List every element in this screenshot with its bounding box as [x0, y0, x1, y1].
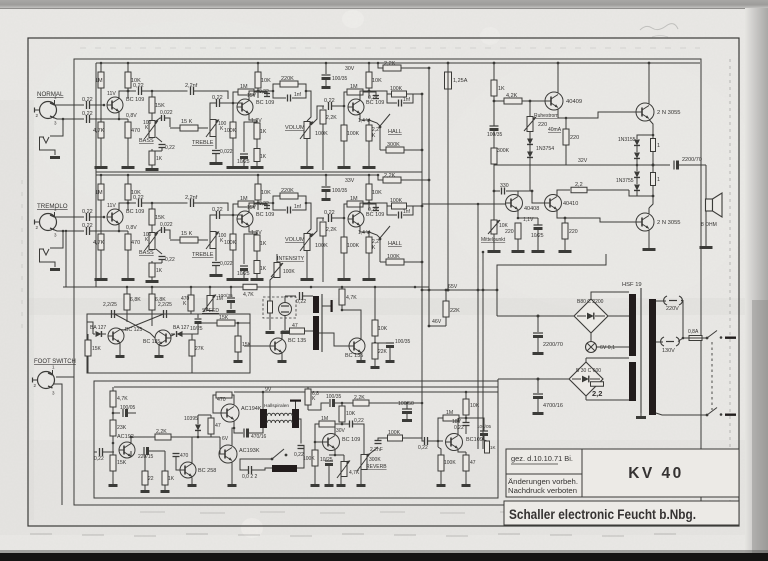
- svg-text:TREMOLO: TREMOLO: [37, 203, 68, 210]
- svg-text:BC 135: BC 135: [143, 339, 160, 345]
- svg-text:15V: 15V: [247, 93, 257, 99]
- wire bridge2 AC top: [585, 358, 587, 362]
- wire T1 collector node ch2: [119, 203, 136, 211]
- svg-text:220: 220: [505, 229, 514, 235]
- wire 40410 collector: [557, 190, 570, 196]
- svg-text:BASS: BASS: [139, 250, 154, 256]
- svg-text:32V: 32V: [578, 158, 588, 164]
- svg-text:220/15: 220/15: [138, 454, 154, 460]
- resistor 4,7K ch1 emitter: [100, 105, 102, 122]
- svg-text:1K: 1K: [168, 476, 175, 482]
- resistor 4,7K mid bus: [243, 284, 257, 290]
- wire BC135-2 collector: [342, 310, 361, 340]
- svg-text:2,2nf: 2,2nf: [185, 195, 198, 201]
- svg-text:0,22: 0,22: [418, 445, 428, 451]
- svg-text:470/16: 470/16: [251, 434, 267, 440]
- wire 40410 base wire: [532, 191, 544, 203]
- svg-text:AC193K: AC193K: [239, 448, 260, 454]
- capacitor 100/05 reverb: [112, 412, 115, 415]
- transistor T1 BC109 ch1: [107, 97, 123, 113]
- svg-text:HALL: HALL: [388, 241, 402, 247]
- capacitor 2,2nF reverb out: [375, 440, 382, 442]
- svg-text:4,2K: 4,2K: [506, 93, 518, 99]
- svg-text:220: 220: [570, 135, 579, 141]
- resistor 220K ch1: [273, 84, 280, 91]
- resistor 1M recovery fb: [341, 423, 344, 426]
- capacitor 470 reverb: [173, 453, 180, 455]
- wire primary top to 220V terminal: [656, 300, 666, 302]
- title block box changes: [506, 474, 582, 497]
- wire 40410 out to lower 2N3055 base region: [564, 217, 566, 219]
- wire BC135-2 emitter: [360, 353, 362, 361]
- transistor BC258: [180, 462, 196, 478]
- capacitor 100/35 rail ch1: [325, 63, 327, 74]
- svg-text:1N3155: 1N3155: [618, 137, 636, 143]
- svg-text:4700/16: 4700/16: [543, 403, 563, 409]
- transformer secondary bar lower: [629, 362, 636, 401]
- svg-text:REVERB: REVERB: [366, 464, 387, 470]
- wire jack to coupling caps: [55, 100, 85, 105]
- LDR in opto: [279, 303, 292, 316]
- resistor 1K mixer out: [485, 441, 490, 453]
- mains switch dashed link: [711, 342, 713, 410]
- wire osc cross coupling: [115, 314, 156, 338]
- wire main supply rail top: [378, 62, 700, 64]
- svg-text:100/05: 100/05: [120, 405, 136, 411]
- resistor 1K bass ch2: [151, 261, 153, 263]
- wire jack sleeve ground ch2: [65, 231, 67, 287]
- wire 40408 base input: [422, 203, 506, 205]
- resistor 6,8K osc left: [126, 287, 128, 294]
- resistor 10K ch2 stage2: [257, 175, 259, 184]
- svg-text:NORMAL: NORMAL: [37, 91, 64, 98]
- svg-text:1nf: 1nf: [403, 209, 411, 215]
- svg-text:1M: 1M: [350, 196, 358, 202]
- svg-text:2 N 3055: 2 N 3055: [657, 110, 681, 116]
- svg-text:0,022: 0,022: [220, 261, 233, 267]
- wire 220V to selector: [681, 301, 689, 339]
- capacitor 100/35 power input: [493, 100, 495, 102]
- capacitor 0,22 stage3 fb ch1: [363, 92, 376, 94]
- svg-text:6,8K: 6,8K: [130, 297, 141, 303]
- resistor 2,2K top ch2: [378, 175, 383, 180]
- resistor 10K ch2 stage3: [368, 175, 370, 184]
- svg-text:gez. d.10.10.71 Bi.: gez. d.10.10.71 Bi.: [511, 456, 573, 463]
- switch HALL ch1: [369, 120, 380, 126]
- output node 32V: [652, 164, 655, 167]
- svg-text:11V: 11V: [107, 203, 116, 209]
- svg-text:4,7K: 4,7K: [93, 240, 105, 246]
- svg-text:TREBLE: TREBLE: [192, 252, 214, 258]
- svg-text:4,7K: 4,7K: [349, 470, 360, 476]
- wire 40409 collector to rail: [557, 63, 559, 94]
- svg-text:10K: 10K: [372, 78, 382, 84]
- transistor AC194K: [221, 404, 239, 422]
- resistor 22K mid right: [374, 342, 377, 345]
- wire 2N3055 upper collector: [648, 63, 650, 105]
- svg-text:1,25A: 1,25A: [453, 78, 468, 84]
- terminal 130V: [656, 341, 663, 343]
- resistor 1K ch1 stage2 emitter: [256, 120, 258, 123]
- wire osc out to 15K: [198, 323, 217, 324]
- transistor 40409: [545, 92, 563, 110]
- reverb driver transformer secondary bar: [313, 316, 319, 350]
- resistor 100K hall ch2: [380, 261, 386, 263]
- potentiometer SPEED 1M: [207, 296, 213, 311]
- wire speaker return: [705, 211, 707, 246]
- capacitor 470/16: [234, 428, 243, 433]
- svg-text:65V: 65V: [448, 284, 458, 290]
- switch reverb mute: [271, 458, 274, 461]
- wire rectifier1 DC output: [497, 315, 574, 317]
- svg-text:1M: 1M: [321, 416, 328, 422]
- resistor 300K hall ch1: [380, 149, 386, 151]
- transistor T3 BC109 ch2: [348, 211, 364, 227]
- svg-text:FOOT SWITCH: FOOT SWITCH: [34, 359, 76, 365]
- transistor BC135 reverb driver 2: [349, 338, 365, 354]
- svg-text:100K: 100K: [224, 128, 237, 134]
- transformer primary bar: [649, 299, 656, 415]
- title block box KV40: [582, 449, 739, 497]
- resistor 15 K treble series ch2: [180, 237, 198, 243]
- svg-text:2,2K: 2,2K: [384, 61, 396, 67]
- svg-text:100K: 100K: [388, 430, 401, 436]
- svg-text:11V: 11V: [107, 91, 116, 97]
- svg-text:300K: 300K: [497, 148, 510, 154]
- resistor 2,2K ch1 stage3 emitter: [368, 120, 370, 125]
- ground T1 emitter resistors: [95, 166, 108, 169]
- svg-text:23K: 23K: [117, 425, 127, 431]
- resistor 100K ch2 stage2 emitter bias: [232, 215, 234, 234]
- svg-text:4,7K: 4,7K: [346, 295, 357, 301]
- wire 40409 emitter to 2N3055 base: [566, 112, 636, 118]
- resistor 10K mixer: [465, 392, 467, 399]
- svg-text:2,2/25: 2,2/25: [103, 302, 117, 308]
- wire 9V rail reverb: [198, 414, 211, 416]
- svg-text:INTENSITY: INTENSITY: [277, 256, 305, 262]
- transistor T2 BC109 ch1: [237, 99, 253, 115]
- resistor 1 lower: [652, 165, 654, 172]
- wire 40409 to 2N3055 base: [557, 93, 559, 95]
- svg-text:0,22: 0,22: [324, 210, 335, 216]
- svg-text:46V: 46V: [432, 319, 442, 325]
- svg-text:0,22: 0,22: [165, 257, 175, 263]
- wire bridge2 left output: [538, 378, 569, 380]
- svg-text:TREBLE: TREBLE: [192, 140, 214, 146]
- wire mid supply bus: [126, 286, 129, 289]
- wire bridge2 to reverb rail: [498, 378, 538, 380]
- svg-text:100K: 100K: [387, 254, 400, 260]
- svg-text:2,2K: 2,2K: [156, 429, 167, 435]
- svg-text:220: 220: [538, 122, 547, 128]
- wire 40408 emitter to 40410 base: [517, 210, 519, 219]
- wire 2N3055 lower emitter to ground rail: [648, 230, 650, 249]
- wire jack to coupling caps: [55, 212, 85, 217]
- capacitor 10/25 recovery emitter: [329, 454, 335, 456]
- svg-text:15K: 15K: [155, 215, 165, 221]
- svg-text:1N3755: 1N3755: [616, 178, 634, 184]
- svg-text:10/25: 10/25: [320, 457, 333, 463]
- trimmer Ruhestrom 220 / 40mA: [529, 101, 531, 116]
- capacitor 0,22 bass lower ch1: [156, 137, 162, 142]
- lamp 6V 0,1: [590, 333, 592, 342]
- svg-text:10K: 10K: [372, 190, 382, 196]
- svg-text:30V: 30V: [336, 428, 346, 434]
- wire 40409 emitter: [558, 109, 566, 119]
- resistor 15K treble divider ch1: [151, 91, 153, 97]
- capacitor 10/25 driver: [534, 224, 543, 226]
- svg-text:15K: 15K: [155, 103, 165, 109]
- svg-text:1K: 1K: [156, 156, 163, 162]
- svg-text:2,2K: 2,2K: [326, 227, 337, 233]
- resistor 15 K treble series ch1: [180, 125, 198, 131]
- svg-text:10/25: 10/25: [237, 271, 250, 277]
- svg-text:100/35: 100/35: [395, 339, 411, 345]
- svg-text:100K: 100K: [303, 456, 315, 462]
- resistor 4,2K to driver: [493, 100, 496, 103]
- capacitor 100/50: [402, 408, 412, 410]
- svg-text:470: 470: [217, 397, 226, 403]
- transistor 2N3055 lower: [636, 213, 654, 231]
- wire 130V to fuse: [678, 338, 683, 342]
- wire T3 collector ch1: [360, 91, 369, 101]
- transformer core lines: [640, 288, 642, 413]
- transistor BC125 osc: [108, 328, 124, 344]
- diode 1N3155 pair upper: [637, 135, 653, 139]
- transistor T1 BC109 ch2: [107, 209, 123, 225]
- svg-text:1M: 1M: [350, 84, 358, 90]
- wire 2N3055 upper emitter chain: [649, 120, 653, 136]
- svg-text:470: 470: [180, 453, 189, 459]
- diode 1N3754 pair: [529, 132, 531, 140]
- resistor 100K reverb out: [388, 435, 403, 441]
- wire T2 emitter ch1: [249, 114, 257, 121]
- resistor 2,2K ch2 stage3 emitter: [368, 232, 370, 237]
- ground BC135 emitter: [158, 345, 160, 356]
- svg-text:15 K: 15 K: [181, 119, 193, 125]
- svg-text:22: 22: [148, 476, 154, 482]
- wire foot switch to oscillator: [56, 376, 74, 378]
- wire T1 emitter ch2: [118, 224, 120, 232]
- transistor BC109 mixer: [446, 434, 463, 451]
- svg-text:2,2nf: 2,2nf: [185, 83, 198, 89]
- resistor 220 40410 emitter: [564, 218, 566, 223]
- wire bridge1 AC top: [591, 292, 629, 299]
- capacitor 100/35 recovery rail: [329, 399, 331, 407]
- wire channel 2 bottom rail: [63, 286, 429, 288]
- switch HALL ch2: [369, 232, 380, 238]
- resistor 1K lower ch2: [254, 261, 260, 274]
- svg-text:300K: 300K: [387, 142, 400, 148]
- capacitor 1nf stage3 ch1: [387, 94, 397, 103]
- capacitor 2200/70 output: [653, 164, 670, 166]
- svg-text:1K: 1K: [498, 86, 505, 92]
- wire AC194K emitter: [233, 421, 235, 429]
- svg-text:BASS: BASS: [139, 138, 154, 144]
- wire secondary taps: [586, 357, 629, 359]
- svg-text:0,022: 0,022: [220, 149, 233, 155]
- wire center tap to PSU: [497, 254, 606, 316]
- svg-text:1K: 1K: [260, 266, 267, 272]
- title block box company: [504, 501, 739, 525]
- svg-text:330: 330: [500, 183, 509, 189]
- resistor 27K osc: [191, 334, 193, 340]
- svg-text:4,7K: 4,7K: [93, 128, 105, 134]
- resistor 2,2K top ch1: [378, 63, 383, 68]
- resistor 100K stage3 fb ch1: [375, 94, 377, 99]
- svg-text:1K: 1K: [156, 268, 163, 274]
- svg-text:100K: 100K: [347, 243, 360, 249]
- wire T2 collector ch1: [249, 91, 258, 101]
- potentiometer TREBLE 100K ch2: [210, 232, 216, 249]
- resistor 15K osc bias: [87, 334, 89, 340]
- svg-text:HSF 19: HSF 19: [622, 282, 642, 288]
- transistor 2N3055 upper: [636, 103, 654, 121]
- svg-text:100/35: 100/35: [332, 188, 348, 194]
- svg-text:1: 1: [657, 177, 660, 183]
- resistor 470 ch2 emitter: [127, 231, 129, 234]
- wire bridge2 AC bottom: [585, 396, 587, 400]
- svg-text:BC 135: BC 135: [288, 338, 306, 344]
- resistor 6,8K osc right: [151, 287, 153, 294]
- wire primary bottom to lower pole: [656, 413, 706, 415]
- capacitor 0,22 recovery in: [298, 445, 305, 447]
- svg-text:100K: 100K: [444, 460, 456, 466]
- reverb driver transformer core: [321, 294, 323, 352]
- transistor 40410: [545, 195, 562, 212]
- diode 1N3155 pair lower: [636, 165, 638, 171]
- svg-text:Schaller electronic Feucht b.N: Schaller electronic Feucht b.Nbg.: [509, 506, 696, 522]
- svg-text:220: 220: [569, 229, 578, 235]
- trimmer Mittelpunkt 10K: [479, 202, 481, 204]
- wire fuse down to 65V bus: [447, 89, 449, 290]
- capacitor 220/15: [130, 451, 132, 457]
- resistor 10K ch1 stage3: [368, 63, 370, 72]
- bridge rectifier B30C600: [569, 362, 603, 396]
- wire AC194K collector loop: [232, 395, 234, 405]
- capacitor 330: [493, 190, 496, 193]
- svg-text:1K: 1K: [260, 129, 267, 135]
- resistor 1K power input: [493, 63, 495, 80]
- svg-text:0,22: 0,22: [212, 95, 223, 101]
- wire 40410 emitter output: [557, 210, 573, 219]
- svg-text:100/35: 100/35: [218, 293, 233, 299]
- svg-text:0,22: 0,22: [212, 207, 223, 213]
- svg-text:1nf: 1nf: [294, 92, 302, 98]
- trimmer 4,7K recovery emitter: [335, 454, 344, 456]
- svg-text:18V: 18V: [452, 419, 462, 425]
- svg-text:100K: 100K: [390, 86, 403, 92]
- spare jack contact drawing ch2: [50, 231, 63, 248]
- svg-text:10/25: 10/25: [531, 233, 544, 239]
- svg-text:0,22: 0,22: [82, 209, 93, 215]
- resistor 1M feedback ch1 stage2: [238, 89, 254, 95]
- svg-text:HALL: HALL: [388, 129, 402, 135]
- label 46V: [429, 325, 446, 327]
- svg-text:SPEED: SPEED: [202, 308, 219, 314]
- svg-text:2,2: 2,2: [592, 389, 602, 398]
- svg-text:1M: 1M: [240, 196, 248, 202]
- reverb output transducer: [272, 465, 297, 472]
- svg-text:100K: 100K: [224, 240, 237, 246]
- svg-text:40409: 40409: [566, 99, 582, 105]
- wire T2 emitter ch2: [249, 226, 257, 233]
- wire BC258 collector: [191, 437, 193, 464]
- resistor 15K shunt: [237, 323, 239, 336]
- svg-text:300K: 300K: [369, 457, 381, 463]
- resistor 22 reverb: [142, 471, 148, 485]
- wire volume wiper to cap ch1: [311, 106, 324, 125]
- resistor 220 driver left: [515, 223, 521, 239]
- transistor AC192: [119, 442, 135, 458]
- svg-text:40410: 40410: [563, 201, 578, 207]
- svg-text:15K: 15K: [92, 346, 102, 352]
- svg-text:470: 470: [131, 128, 140, 134]
- svg-text:1nf: 1nf: [294, 204, 302, 210]
- tremolo oscillator box: [87, 314, 250, 373]
- resistor 47 reverb driver: [210, 415, 212, 418]
- wire volume wiper to cap ch2: [311, 218, 324, 237]
- potentiometer BASS 100K ch2: [149, 233, 155, 250]
- svg-text:0,22: 0,22: [354, 418, 364, 424]
- resistor 1M mixer: [443, 415, 459, 421]
- potentiometer REVERB 300K: [353, 424, 365, 454]
- capacitor 1nf ch2: [273, 203, 286, 210]
- capacitor 1nf ch1: [273, 91, 286, 98]
- wire lower output to 2N3055 lower: [652, 195, 655, 198]
- svg-text:10/25: 10/25: [190, 326, 203, 332]
- wire T1 emitter ch1: [118, 112, 120, 120]
- svg-text:100K: 100K: [315, 243, 328, 249]
- capacitor 0,022 reverb out: [248, 466, 250, 474]
- resistor 2,2 in bridge2: [591, 382, 604, 387]
- svg-text:1nf: 1nf: [403, 97, 411, 103]
- resistor 6,8K recovery: [307, 387, 309, 389]
- capacitor 0,22 stage3 fb ch2: [363, 204, 376, 206]
- svg-text:47: 47: [292, 323, 298, 329]
- wire stage3 output ch1: [413, 93, 422, 95]
- svg-text:6V: 6V: [222, 436, 229, 442]
- svg-text:KV 40: KV 40: [628, 465, 684, 482]
- wire opto connections: [285, 295, 296, 297]
- resistor 1K reverb: [162, 471, 168, 485]
- resistor 220K ch2: [273, 196, 280, 203]
- speaker 8 OHM: [705, 165, 707, 200]
- capacitor 10/25 mixer: [480, 430, 488, 432]
- opto coupler dashed box: [263, 297, 296, 318]
- wire transducer to recovery amp: [297, 445, 304, 468]
- resistor 100K ch1 stage2 emitter bias: [232, 103, 234, 122]
- lamp resistor in opto: [268, 301, 273, 313]
- resistor 10K ch1 stage1: [127, 63, 129, 72]
- border dashed margin line: [729, 59, 731, 505]
- resistor 100K stage3 fb ch2: [375, 206, 377, 211]
- ground T1 emitter resistors: [95, 278, 108, 281]
- svg-text:130V: 130V: [662, 348, 675, 354]
- resistor 15K treble divider ch2: [151, 203, 153, 209]
- reverb section box: [94, 381, 498, 498]
- svg-text:47: 47: [470, 460, 476, 466]
- wire T1 collector node ch1: [119, 91, 136, 99]
- wire stage2 out to volume ch2: [306, 203, 311, 211]
- wire AC193K emitter: [231, 462, 233, 471]
- svg-text:2,2: 2,2: [575, 182, 583, 188]
- resistor 1M ch1 stage3 feedback: [347, 89, 363, 95]
- svg-text:2,2K: 2,2K: [354, 395, 365, 401]
- svg-text:BC 109: BC 109: [342, 437, 360, 443]
- resistor 300K power feedback: [493, 140, 495, 148]
- wire channel 2 top supply rail: [96, 174, 378, 176]
